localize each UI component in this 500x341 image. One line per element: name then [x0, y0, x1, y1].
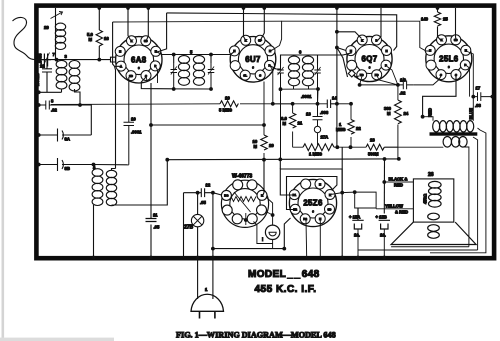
scan artifact left edge — [2, 0, 5, 341]
tube U1 6A8 pin 3D — [141, 36, 151, 46]
svg-text:S: S — [440, 73, 442, 77]
svg-text:H: H — [465, 49, 467, 53]
trimmer cap right of transformer 6 — [314, 64, 321, 104]
tube U1 6A8 pin H — [151, 46, 161, 56]
tube U5 25Z6 pin P1 — [289, 190, 299, 200]
svg-text:MODEL _ _ 648: MODEL _ _ 648 — [248, 269, 320, 280]
wire K junction lower link — [355, 192, 376, 208]
svg-text:.05: .05 — [200, 200, 206, 205]
wire osc coil left top to y=164.5 — [93, 165, 95, 170]
svg-text:S: S — [259, 73, 261, 77]
capacitor 14 — [327, 100, 337, 109]
tube U1 6A8 pin 2D — [126, 71, 136, 81]
voice coil loops — [428, 213, 440, 238]
wire 15B to border — [383, 250, 385, 258]
node dot x=336.9 y=103.8 — [335, 102, 339, 106]
node dot x=151 y=125 — [149, 123, 153, 127]
speaker cone — [391, 222, 476, 244]
wire VC lug to jack line — [266, 212, 273, 216]
node dot x=384.5 bus — [383, 157, 387, 161]
svg-text:23: 23 — [370, 138, 375, 143]
node dot x=212.9 y=192.7 — [211, 191, 215, 195]
tube U3 6Q7 pin K — [357, 35, 367, 45]
svg-text:10: 10 — [131, 117, 136, 122]
pilot lamp 27B circle with X — [191, 214, 203, 226]
svg-text:27A: 27A — [321, 135, 329, 140]
wire transformer secondary to voice coil right — [398, 147, 469, 247]
output transformer core — [430, 132, 478, 135]
node dot x=398.8 bus — [397, 157, 401, 161]
node dot border y=164.5 — [37, 163, 41, 167]
node dot x=167.3 bus — [165, 158, 169, 162]
wire 25L6 G1 to border — [455, 8, 458, 40]
tube U4 25L6 pin blank — [426, 60, 436, 70]
tube U3 6Q7 pin D — [372, 35, 382, 45]
svg-text:6U7: 6U7 — [245, 55, 261, 64]
wire y=147.2 to resistor 23 — [337, 146, 366, 148]
volume control wiper arrow — [234, 192, 251, 225]
capacitor 11 on x=151 — [146, 219, 157, 222]
output transformer secondary loops — [443, 137, 467, 148]
svg-text:i: i — [262, 237, 263, 242]
svg-text:12: 12 — [206, 183, 211, 188]
25Z6 inner loop wire — [287, 177, 337, 210]
node dot x=292.6 y=103.8 — [291, 102, 295, 106]
node dot x=473.3 y=96.6 — [471, 95, 475, 99]
tube U5 25Z6 pin H — [315, 179, 325, 189]
wire osc coil left bottom to border — [93, 205, 95, 258]
tube U1 6A8 envelope — [116, 37, 162, 83]
node dot x=272.8 y=103.8 — [271, 102, 275, 106]
svg-text:W-46773: W-46773 — [232, 174, 252, 180]
wire lamp 27B leads — [197, 193, 199, 258]
tube U1 6A8 pin S — [141, 71, 151, 81]
antenna lead-in squiggle — [13, 17, 37, 59]
IF transformer 6 secondary — [302, 55, 313, 86]
wire line A riser to 6A8 — [157, 13, 167, 52]
wire x=183.5 down to border — [183, 193, 185, 258]
coil 3 left winding — [56, 60, 67, 89]
node dot x=272.6 y=215 — [271, 213, 275, 217]
wire 25L6 cathode down to output stage — [423, 75, 456, 117]
svg-text:16.: 16. — [354, 233, 360, 238]
svg-text:D: D — [375, 38, 377, 42]
wire x=358 15A to border — [357, 250, 359, 258]
svg-text:16.: 16. — [380, 233, 386, 238]
svg-text:SL: SL — [243, 73, 247, 77]
capacitor 17 .03 — [473, 92, 492, 101]
resistor 16 vertical — [96, 8, 102, 60]
svg-text:500M: 500M — [368, 152, 379, 157]
wire osc coil right top — [112, 169, 116, 171]
trimmer cap left of transformer 5 — [171, 63, 178, 89]
svg-text:26: 26 — [428, 172, 434, 178]
antenna coil 29 loops — [55, 23, 65, 49]
svg-text:.02: .02 — [400, 91, 406, 96]
node dot x=359.6 y=84.9 — [358, 83, 362, 87]
electrolytic 15B — [379, 220, 390, 250]
volume control rheostat zigzag — [231, 197, 256, 202]
wire y=250 return — [358, 137, 478, 250]
svg-text:H: H — [385, 49, 387, 53]
volume control wiper dot — [244, 218, 248, 222]
wire RED lead into output transformer — [423, 117, 433, 121]
svg-text:M: M — [89, 37, 93, 42]
tube U3 6Q7 pin P — [381, 60, 391, 70]
tube U5 25Z6 pin K — [325, 190, 335, 200]
tube U4 25L6 pin H — [425, 45, 435, 55]
svg-text:BLUE: BLUE — [469, 108, 474, 120]
tube U4 25L6 pin S — [451, 70, 461, 80]
tube U5 25Z6 pin blank — [301, 179, 311, 189]
svg-text:+ 15A: + 15A — [349, 215, 360, 220]
tube U2 6U7 pin H — [265, 46, 275, 56]
wire x=485.9 right return — [430, 128, 486, 253]
tube U5 25Z6 pin 3D — [325, 204, 335, 214]
node dot x=264 y=125 — [262, 123, 266, 127]
wire 6U7 g2 pin to border — [260, 8, 264, 41]
grid stopper diamond 6Q7 — [348, 70, 355, 77]
wire 6Q7 diode-plate pin to border — [378, 8, 381, 40]
node dots on bottom border for plug wires — [196, 256, 200, 260]
node dot x=350.5 y=147.2 — [349, 145, 353, 149]
tone control 27A circle — [314, 126, 320, 132]
osc coil 2 right winding — [106, 170, 116, 205]
svg-text:14: 14 — [332, 96, 337, 101]
node dot x=284.3 y=248.6 — [282, 247, 286, 251]
power plug prongs — [200, 311, 215, 318]
wire 6U7 cathode to border — [244, 8, 246, 40]
node dot x=212.9 y=248.6 — [211, 247, 215, 251]
svg-text:M: M — [387, 111, 391, 116]
svg-text:RED: RED — [394, 183, 403, 188]
wire bus to 15B / BLACK&RED — [383, 159, 385, 214]
node dot antenna junction — [55, 58, 59, 62]
svg-text:& RED: & RED — [395, 210, 408, 215]
tube U2 6U7 pin P — [265, 60, 275, 70]
tube U4 25L6 pin K — [437, 35, 447, 45]
volume control W-46773 — [221, 180, 268, 228]
svg-text:.0001: .0001 — [131, 130, 142, 135]
tube U3 6Q7 pin H — [382, 46, 392, 56]
node dot x=93.5 y=164.5 — [92, 163, 96, 167]
svg-text:+ 15B: + 15B — [376, 215, 387, 220]
wire to 6Q7 cathode — [337, 32, 362, 39]
wire 6A8 pin S to y89 — [146, 76, 147, 82]
node dot osc coil on border — [92, 256, 96, 260]
node dot grid line x=99 — [97, 58, 101, 62]
tube U2 6U7 pin S — [255, 70, 265, 80]
wire 6A8 anode-grid x=113 down to osc coil — [113, 22, 121, 169]
svg-text:27B: 27B — [184, 225, 194, 231]
resistor 19 zigzag — [220, 101, 238, 107]
resistor 19 with AVC line y=104 — [51, 103, 293, 106]
tube U4 25L6 pin H — [461, 45, 471, 55]
speaker cone bottom double line — [391, 246, 469, 248]
tube U1 6A8 pin A — [116, 61, 126, 71]
svg-text:M: M — [283, 121, 287, 126]
node dot x=384.3 border — [382, 256, 386, 260]
phono jack inner — [269, 232, 276, 236]
svg-text:20: 20 — [269, 143, 274, 148]
svg-text:1 MEG: 1 MEG — [309, 152, 322, 157]
svg-text:13: 13 — [306, 112, 311, 117]
osc coil 2 left winding — [92, 169, 103, 206]
resistor 23 zigzag — [366, 144, 398, 150]
svg-text:140: 140 — [421, 17, 429, 22]
tube U5 25Z6 pin H — [315, 214, 325, 224]
capacitor 10 on 6A8 grid return — [124, 77, 135, 165]
svg-text:5 MEG: 5 MEG — [219, 108, 232, 113]
wire transformer 5 grid line — [156, 52, 235, 64]
wire osc coil right bottom to bus riser — [112, 160, 168, 205]
resistor 25 zigzag — [434, 12, 440, 26]
resistor 24 vertical — [395, 85, 402, 159]
tube U5 25Z6 pin K2 — [290, 204, 300, 214]
capacitor 22 — [42, 60, 52, 91]
capacitor 9A — [39, 129, 92, 142]
node dot x=422.6 y=116.7 — [421, 115, 425, 119]
svg-text:RED: RED — [428, 108, 433, 117]
svg-text:21: 21 — [298, 121, 303, 126]
wire border to coil-3 bottoms y=92 — [39, 90, 62, 93]
svg-text:.05: .05 — [154, 225, 160, 230]
wire VC switch to jack line — [267, 198, 273, 226]
svg-text:YELLOW: YELLOW — [385, 204, 403, 209]
wire bus x=264 down to VC switch — [263, 160, 264, 196]
coil 3 right winding — [69, 60, 80, 105]
node dot x=280.3 bus — [278, 158, 282, 162]
svg-text:25Z6: 25Z6 — [303, 199, 323, 208]
on-off switch line to lamp 27B — [184, 193, 222, 195]
wire to 6Q7 heater / diode — [337, 48, 359, 78]
wire y=89 under transformer 5 — [141, 77, 211, 90]
capacitor 9B — [39, 158, 94, 171]
node dot x=397.9 y=84.9 — [396, 83, 400, 87]
node dot x=317.5 y=103.8 — [316, 102, 320, 106]
power plug body — [191, 294, 224, 311]
svg-text:H: H — [119, 50, 121, 54]
svg-text:.02: .02 — [51, 108, 57, 113]
node dot x=264 y=159.7 — [262, 158, 266, 162]
svg-text:450Ω: 450Ω — [423, 194, 428, 204]
wire y=103.8 to cap 14 — [273, 103, 328, 105]
svg-text:29: 29 — [44, 25, 49, 30]
svg-text:6Q7: 6Q7 — [362, 55, 378, 64]
svg-text:.0001: .0001 — [301, 94, 312, 99]
svg-text:BLACK &: BLACK & — [389, 177, 408, 182]
node dot x=354.7 y=192.1 — [353, 190, 357, 194]
svg-text:17: 17 — [476, 86, 481, 91]
wire AVC bus y=104 to resistor 19 — [48, 104, 50, 106]
wire y=89 under transformer 6 — [281, 86, 319, 89]
wire 6A8 cathode to border — [128, 8, 131, 40]
wire x=342.2 to border — [341, 147, 343, 258]
node dot x=358 on border — [356, 256, 360, 260]
wire 6A8 plate P down — [155, 66, 157, 83]
svg-text:25L6: 25L6 — [439, 54, 459, 63]
svg-text:2D: 2D — [129, 74, 133, 78]
svg-text:16: 16 — [104, 36, 109, 41]
node dot border y=105 — [37, 103, 41, 107]
resistor 22 vertical — [348, 104, 354, 147]
svg-text:.0005: .0005 — [38, 53, 43, 64]
wire antenna input to grid line — [36, 59, 111, 61]
tube U1 6A8 pin K — [127, 36, 137, 46]
output transformer primary loops — [433, 121, 474, 132]
svg-text:H: H — [319, 182, 321, 186]
wire plate line A: 6A8 plate to 6Q7 — [167, 13, 397, 51]
node dot on border x=100 — [98, 6, 102, 10]
wire bus riser to outer loop — [279, 159, 281, 169]
svg-text:.006: .006 — [320, 110, 329, 115]
node dot x=318 y=89 — [316, 87, 320, 91]
power cord wires below border — [198, 258, 213, 299]
node dot x=337 y=31.8 — [335, 30, 339, 34]
wire 25Z6 cathode to junction — [331, 192, 355, 194]
capacitor .0005 antenna trimmer — [40, 53, 51, 68]
tube U3 6Q7 pin H — [346, 46, 356, 56]
wire 27A to 1 MEG wiper — [317, 133, 319, 145]
IF transformer 6 primary — [288, 55, 299, 86]
wire 25L6 heater-plate to BLUE node — [466, 51, 474, 97]
wire y=105 to x=91.3 — [80, 105, 91, 135]
tube U4 25L6 pin P — [460, 60, 470, 70]
wire y=125 : osc grid bus — [151, 124, 264, 126]
resistor 1 MEG horizontal (volume) — [293, 144, 338, 151]
node dot on border x=128 — [126, 6, 130, 10]
svg-text:MEG: MEG — [336, 127, 346, 132]
node dot on right border y=96.6 — [491, 95, 495, 99]
wire transformer 6 top (6U7 plate to 6Q7 grid) — [270, 53, 352, 69]
antenna coil 29 vertical wire — [55, 8, 57, 60]
wire jack to rail — [272, 240, 274, 249]
tube U3 6Q7 pin FD — [357, 70, 367, 80]
IF transformer 5 secondary — [193, 55, 204, 86]
wire YELLOW&RED to field coil — [376, 208, 413, 210]
svg-text:22: 22 — [40, 64, 45, 69]
phono jack circle — [265, 225, 279, 239]
wire 6A8 G2 to border — [147, 8, 149, 40]
node dot x=337.3 y=147.2 — [335, 145, 339, 149]
tube U4 25L6 pin 3D — [451, 35, 461, 45]
tube U4 25L6 pin S — [436, 70, 446, 80]
node dot x=351 y=103.8 — [349, 102, 353, 106]
svg-text:P2: P2 — [303, 217, 307, 221]
wire K junction to speaker yellow lead — [355, 192, 376, 209]
speaker field coil box 26 — [413, 179, 453, 222]
AVC capacitor 8 — [39, 101, 80, 110]
main B- bus y=159.7 — [167, 158, 398, 161]
wire line B: 6U7 H to 25L6 H — [270, 21, 430, 51]
tube U3 6Q7 pin blank — [347, 60, 357, 70]
node dots y=89 — [172, 87, 176, 91]
wire 6U7 plate pin down — [270, 66, 273, 104]
capacitor 12 — [198, 188, 208, 197]
trimmer cap left of transformer 6 — [277, 64, 284, 160]
node dot on border x=437 — [436, 6, 440, 10]
capacitor 13 .006 — [313, 104, 323, 127]
trimmer cap right of transformer 5 — [208, 63, 215, 89]
tube U2 6U7 envelope — [230, 37, 276, 83]
node dot x=337 y=47.5 — [335, 46, 339, 50]
svg-text:1/6: 1/6 — [400, 78, 406, 83]
svg-text:.03: .03 — [475, 103, 481, 108]
node dots transformer 5 top — [172, 53, 176, 57]
tube U4 25L6 envelope — [426, 36, 472, 82]
svg-text:9A: 9A — [65, 137, 70, 142]
svg-text:22: 22 — [356, 126, 361, 131]
svg-text:FD: FD — [375, 73, 379, 77]
svg-text:6A8: 6A8 — [131, 55, 147, 64]
tube U5 25Z6 envelope — [289, 179, 336, 226]
tube U2 6U7 pin H — [229, 46, 239, 56]
tube U2 6U7 pin K — [241, 35, 251, 45]
svg-text:11: 11 — [153, 213, 158, 218]
svg-text:25: 25 — [443, 17, 448, 22]
resistor 20 vertical — [261, 82, 267, 160]
wire 6Q7 bus x=337 from border — [336, 8, 338, 147]
wire 6Q7 diode pins to cap — [360, 66, 398, 85]
svg-text:BG: BG — [224, 194, 229, 198]
tube U5 25Z6 pin P2 — [300, 214, 310, 224]
wire 25Z6 heater pins to border — [306, 220, 320, 258]
svg-text:24: 24 — [404, 111, 409, 116]
svg-text:.00025: .00025 — [35, 73, 40, 86]
node dot x=342.2 y=192.6 — [340, 191, 344, 195]
tube U3 6Q7 pin FD — [372, 70, 382, 80]
tube U2 6U7 pin 3P — [255, 35, 265, 45]
wire x=212.9 down to border — [212, 193, 214, 258]
svg-text:19: 19 — [225, 96, 230, 101]
IF transformer 5 primary — [178, 55, 189, 86]
node dot x=80 y=105 — [78, 103, 82, 107]
wire cap to 25L6 grid — [413, 77, 441, 85]
electrolytic 15A — [352, 208, 363, 250]
tube U3 6Q7 envelope — [347, 36, 392, 81]
chassis border frame (acts as ground bus) — [36, 6, 494, 259]
node dot x=342.2 on border — [340, 256, 344, 260]
tube U2 6U7 pin SL — [240, 70, 250, 80]
node dot on border x=148 — [147, 6, 151, 10]
node dot on border x=264 — [263, 6, 267, 10]
field coil loops 450 ohm — [429, 181, 442, 207]
svg-text:M: M — [254, 144, 258, 149]
wire BLACK&RED to field coil — [384, 181, 413, 183]
wire VC lug to jack loop — [254, 222, 273, 244]
node dot x=197.6 y=192.7 — [196, 191, 200, 195]
svg-text:9B: 9B — [65, 166, 70, 171]
coupling cap 1/6 .02 — [360, 81, 414, 90]
resistor 21 vertical — [289, 104, 295, 147]
wire volume control bottom rail y=248.6 — [213, 218, 291, 249]
node dot x=384.3 y=181.6 — [382, 180, 386, 184]
node dot on border x=243 — [242, 6, 246, 10]
wire y=164.5 to cap 10 return — [94, 164, 129, 166]
node dot on border y=92 — [37, 90, 41, 94]
tube U1 6A8 pin H — [115, 46, 125, 56]
node dot x=151 on border — [149, 256, 153, 260]
wire x=151 : 6A8 down to cap 11 and border — [150, 83, 152, 258]
svg-text:455 K.C. I.F.: 455 K.C. I.F. — [255, 284, 317, 295]
svg-text:3D: 3D — [328, 207, 332, 211]
svg-text:FIG. 1—WIRING DIAGRAM—MODEL 64: FIG. 1—WIRING DIAGRAM—MODEL 648 — [176, 331, 336, 340]
wire BLUE lead up — [472, 97, 474, 121]
wire y=103.8 cap14 to r22 — [337, 103, 351, 105]
node dot x=280.5 y=89.2 — [279, 87, 283, 91]
node dot border y=135 — [37, 133, 41, 137]
25Z6 outer loop wire — [280, 169, 342, 195]
